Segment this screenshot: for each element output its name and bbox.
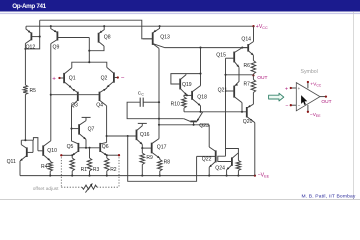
node Q5 emitter tap — [71, 154, 73, 156]
wire Q16 emitter to Q17 base — [142, 147, 151, 149]
transistor Q14 — [247, 44, 249, 52]
wire Q19 base-collector tie — [171, 74, 201, 84]
node Q7 emitter to base bus — [85, 147, 87, 149]
svg-text:R10: R10 — [171, 101, 180, 107]
svg-text:Q16: Q16 — [140, 132, 150, 138]
svg-text:R2: R2 — [110, 167, 117, 173]
node VEE rail junction — [106, 175, 108, 177]
svg-text:Q6: Q6 — [102, 144, 109, 150]
svg-text:R1: R1 — [81, 167, 88, 173]
transistor Q18 — [191, 91, 193, 100]
svg-text:OUT: OUT — [321, 99, 331, 105]
node VEE rail junction — [237, 175, 239, 177]
svg-text:Q20: Q20 — [243, 119, 253, 125]
svg-text:Q13: Q13 — [160, 34, 170, 40]
wire Q23 base line — [193, 121, 195, 124]
wire R4 top — [49, 160, 51, 163]
svg-text:Q5: Q5 — [67, 144, 74, 150]
transistor Q21 — [233, 86, 235, 98]
wire Q5 emitter node to R1 — [71, 155, 73, 158]
wire bias node line — [184, 111, 247, 113]
wire Q2-Q4 emitter link — [106, 86, 108, 89]
svg-text:Q11: Q11 — [7, 159, 16, 165]
opamp VCC stub — [307, 82, 309, 88]
svg-text:R9: R9 — [146, 155, 153, 161]
opamp + input lead — [291, 87, 296, 89]
wire Q4 collector column — [106, 106, 108, 143]
wire Q3/Q4 base bus — [51, 94, 100, 96]
wire Q10 base link to Q11 — [33, 138, 38, 151]
title bar ghost line — [0, 13, 360, 14]
title bar — [0, 0, 360, 12]
node OUT — [252, 74, 254, 76]
node input + terminal — [58, 77, 60, 79]
node Q8 emitter junction — [103, 25, 105, 27]
offset adjust dashed left — [60, 157, 62, 187]
wire Q8 base-collector tie — [89, 38, 104, 51]
wire R3 top lead — [89, 148, 91, 158]
svg-text:Q8: Q8 — [104, 35, 111, 41]
svg-text:Q4: Q4 — [96, 103, 103, 109]
svg-text:Q24: Q24 — [215, 165, 225, 171]
node Q13 emitter junction — [159, 25, 161, 27]
transistor Q1 — [63, 73, 65, 83]
wire Q20 collector to VEE — [254, 123, 256, 176]
wire OUT bus — [226, 74, 254, 76]
svg-text:−: − — [121, 75, 125, 82]
transistor Q22 — [215, 150, 217, 162]
svg-text:+: + — [298, 86, 301, 91]
transistor Q24 — [231, 157, 233, 166]
wire column to R11 top — [226, 149, 239, 161]
node VEE rail junction — [88, 175, 90, 177]
svg-text:+: + — [285, 86, 288, 92]
wire Q23 collector line — [159, 118, 184, 120]
svg-text:+: + — [52, 75, 56, 82]
wire Q11 base-collector tie — [21, 140, 33, 152]
resistor R11 — [236, 161, 241, 171]
resistor R4 — [48, 162, 53, 172]
transistor Q6 — [99, 143, 101, 152]
wire R7 to Q20 emitter — [252, 93, 254, 105]
slide right border — [353, 12, 355, 199]
svg-text:Q9: Q9 — [53, 45, 60, 51]
transistor Q13 — [152, 32, 154, 45]
op-amp triangle — [296, 83, 320, 111]
wire Q13 collector2 line — [165, 47, 249, 49]
wire Q3 collector column — [71, 106, 73, 141]
transistor Q11 — [26, 147, 28, 157]
transistor Q16 — [136, 130, 138, 141]
resistor R5 — [23, 85, 28, 95]
transistor Q17 — [151, 143, 153, 154]
resistor R3 — [87, 158, 92, 171]
slide bottom border — [0, 198, 360, 200]
transistor Q7 — [78, 124, 80, 134]
node VEE rail junction — [226, 175, 228, 177]
green arrow — [269, 93, 284, 101]
svg-text:Q12: Q12 — [26, 45, 36, 51]
transistor Q15 — [233, 52, 235, 63]
node Q6 emitter tap — [106, 154, 108, 156]
svg-text:R7: R7 — [244, 82, 251, 88]
opamp OUT lead — [320, 96, 326, 98]
transistor Q19 — [179, 79, 181, 90]
svg-text:offset adjust: offset adjust — [33, 186, 59, 192]
transistor Q5 — [77, 143, 79, 152]
wire Q24 base-collector tie — [218, 156, 232, 161]
wire offset tap right — [107, 154, 119, 156]
svg-text:R3: R3 — [93, 167, 100, 173]
wire Q6 emitter node to R2 — [106, 155, 108, 158]
node VEE rail junction — [141, 175, 143, 177]
node Q9/Q10 collector to Q3Q4 base bus — [50, 94, 52, 96]
svg-text:Q21: Q21 — [218, 87, 228, 93]
node Q21 collector junction — [241, 111, 243, 113]
wire Q18/Q19 collector column — [200, 48, 202, 86]
node Q18 collector branch — [199, 47, 201, 49]
opamp - input lead — [291, 104, 296, 106]
wire Q22 collector up — [208, 125, 210, 147]
transistor Q10 — [42, 145, 44, 155]
svg-text:R4: R4 — [41, 164, 48, 170]
svg-text:R5: R5 — [30, 88, 37, 94]
node Q15 collector junction — [241, 47, 243, 49]
wire Q13 collector1 column — [158, 48, 160, 138]
opamp VEE stub — [307, 105, 309, 112]
node Q4-Q16 branch — [106, 135, 108, 137]
svg-text:Q17: Q17 — [157, 144, 167, 150]
resistor R8 — [159, 158, 161, 159]
svg-text:Q1: Q1 — [69, 76, 76, 82]
svg-text:Op-Amp 741: Op-Amp 741 — [12, 3, 46, 10]
node R3 top — [88, 147, 90, 149]
wire Q1/Q2 collector bus — [72, 62, 107, 68]
node +VCC terminal — [252, 25, 254, 27]
wire VEE rail — [20, 175, 255, 177]
transistor Q23 (horizontal bar) — [190, 120, 197, 122]
wire Q15/Q21 base column — [225, 58, 227, 148]
svg-text:Q15: Q15 — [216, 53, 226, 59]
node Q22 collector to Q16 base — [127, 135, 129, 137]
resistor R6 — [251, 61, 256, 75]
svg-text:M. B. Patil, IIT Bombay: M. B. Patil, IIT Bombay — [301, 193, 355, 199]
svg-text:Q22: Q22 — [202, 156, 212, 162]
svg-text:Q19: Q19 — [182, 82, 192, 88]
wire Q5/Q6 base bus — [78, 147, 100, 149]
wire Q14 emitter to R6 — [252, 55, 254, 60]
transistor Q20 — [246, 107, 248, 117]
transistor Q8 — [98, 33, 100, 43]
wire offset tap left — [61, 154, 72, 156]
mouse cursor — [301, 95, 307, 105]
wire Q9 collector down — [50, 44, 52, 141]
transistor Q2 — [113, 72, 115, 82]
node VEE rail junction — [159, 175, 161, 177]
wire VCC rail — [26, 25, 254, 27]
offset adjust dashed bottom right — [97, 186, 119, 188]
wire Q22 base dip under rail to Q16 base — [128, 136, 197, 181]
VCC stub for Q7 — [82, 116, 91, 118]
wire Q12 base-collector tie — [25, 20, 39, 49]
svg-text:Q18: Q18 — [197, 94, 207, 100]
svg-text:Q14: Q14 — [241, 36, 251, 42]
node CC right on column — [158, 101, 160, 103]
resistor R10 — [182, 97, 187, 108]
wire Q1-Q3 emitter link — [71, 87, 73, 90]
transistor Q4 — [99, 92, 101, 101]
svg-text:Q3: Q3 — [71, 103, 78, 109]
svg-text:Q2: Q2 — [101, 75, 108, 81]
wire Q12-Q13 base bus — [40, 20, 152, 39]
VCC stub for Q16 — [138, 122, 147, 124]
svg-text:Q7: Q7 — [88, 127, 95, 133]
node Q9 emitter junction — [50, 25, 52, 27]
node VEE rail junction — [71, 175, 73, 177]
resistor R7 — [252, 75, 254, 79]
node Q7 base on Q3 column — [70, 128, 72, 130]
svg-text:OUT: OUT — [257, 75, 267, 81]
node Q18 emitter junction — [199, 111, 201, 113]
resistor R1 — [70, 158, 75, 171]
svg-text:R6: R6 — [244, 63, 251, 69]
wire Q19 emitter to R10 — [186, 94, 188, 96]
transistor Q3 — [77, 92, 79, 101]
svg-text:Q10: Q10 — [47, 148, 57, 154]
potentiometer zigzag — [82, 185, 97, 189]
svg-text:Q23: Q23 — [199, 123, 209, 129]
potentiometer wiper arrow — [85, 183, 92, 192]
svg-text:Symbol: Symbol — [301, 69, 318, 75]
node VEE rail junction — [208, 175, 210, 177]
resistor R2 — [105, 158, 110, 171]
wire VCC drop to Q14 — [253, 26, 255, 41]
node VEE rail junction — [49, 175, 51, 177]
svg-text:−: − — [285, 103, 288, 109]
node input - terminal — [117, 76, 119, 78]
transistor Q12 — [30, 32, 32, 40]
capacitor CC — [139, 98, 141, 107]
node -VEE terminal — [254, 174, 256, 176]
resistor R9 — [141, 148, 143, 153]
svg-text:−: − — [298, 103, 301, 108]
offset adjust dashed right — [118, 157, 120, 187]
offset adjust dashed bottom left — [61, 186, 82, 188]
wire R5 column top — [24, 44, 26, 86]
wire Q4 to Q16 base — [107, 135, 137, 137]
wire R5 column bottom — [24, 95, 26, 141]
transistor Q9 — [56, 31, 58, 40]
svg-text:R8: R8 — [164, 159, 171, 165]
